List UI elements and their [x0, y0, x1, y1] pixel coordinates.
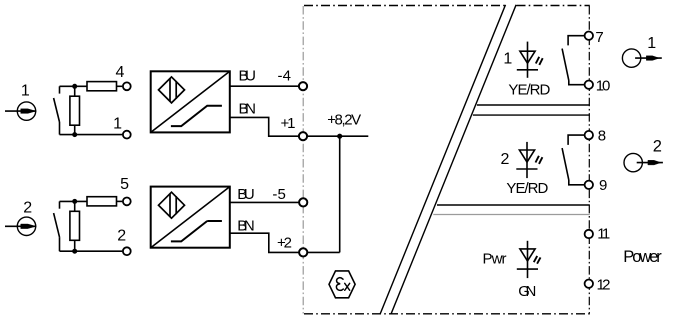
- svg-text:2: 2: [117, 227, 126, 244]
- svg-text:YE/RD: YE/RD: [508, 82, 550, 99]
- svg-text:8: 8: [598, 128, 606, 145]
- svg-text:10: 10: [596, 77, 611, 94]
- svg-text:+1: +1: [281, 115, 296, 132]
- svg-text:-4: -4: [278, 68, 292, 85]
- svg-text:BU: BU: [239, 68, 257, 85]
- svg-text:7: 7: [595, 29, 603, 46]
- svg-text:2: 2: [23, 200, 32, 217]
- svg-text:2: 2: [500, 151, 509, 168]
- svg-text:+2: +2: [277, 235, 292, 252]
- svg-text:GN: GN: [518, 283, 536, 300]
- svg-text:BN: BN: [237, 217, 255, 234]
- svg-text:1: 1: [647, 35, 656, 52]
- svg-text:5: 5: [120, 176, 129, 193]
- svg-text:+8,2V: +8,2V: [327, 111, 361, 128]
- svg-text:1: 1: [113, 116, 122, 133]
- svg-text:BU: BU: [237, 186, 255, 203]
- svg-text:2: 2: [653, 137, 662, 155]
- svg-text:11: 11: [597, 226, 610, 243]
- svg-text:4: 4: [116, 64, 125, 81]
- svg-text:YE/RD: YE/RD: [506, 180, 548, 197]
- svg-text:1: 1: [21, 83, 30, 100]
- svg-text:BN: BN: [239, 100, 257, 117]
- svg-text:Power: Power: [623, 248, 662, 266]
- svg-text:12: 12: [597, 277, 611, 294]
- svg-text:Pwr: Pwr: [483, 250, 507, 267]
- svg-text:9: 9: [599, 177, 607, 194]
- svg-text:1: 1: [503, 51, 512, 68]
- svg-text:-5: -5: [272, 186, 286, 203]
